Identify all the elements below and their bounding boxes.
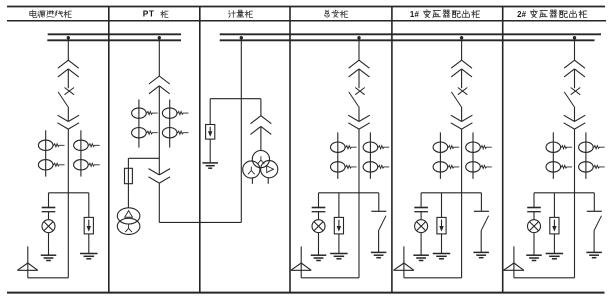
svg-text:1#: 1#: [410, 10, 420, 19]
svg-text:PT: PT: [143, 8, 155, 18]
svg-text:2#: 2#: [517, 10, 527, 19]
